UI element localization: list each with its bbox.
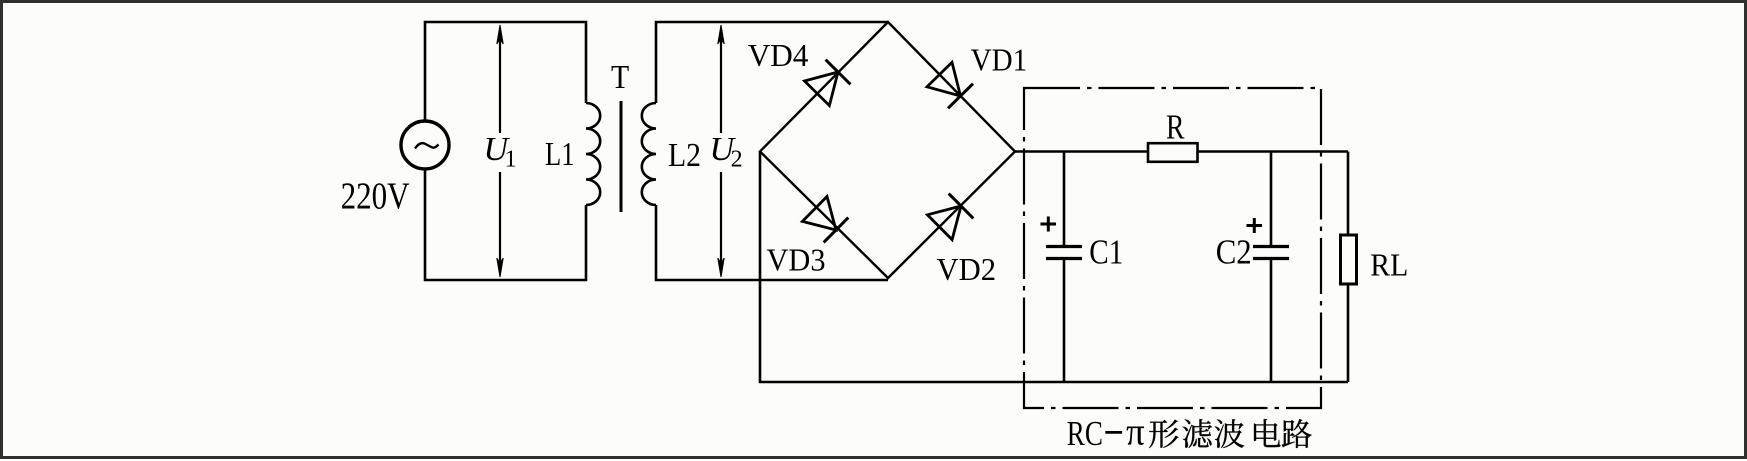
svg-text:220V: 220V bbox=[341, 176, 410, 218]
svg-text:VD3: VD3 bbox=[767, 242, 826, 278]
filter boundary dash-dot box bbox=[1024, 88, 1321, 408]
svg-text:π: π bbox=[1126, 411, 1145, 454]
svg-text:C1: C1 bbox=[1089, 233, 1123, 272]
diode VD1 bbox=[927, 62, 973, 108]
wire DC positive rail bbox=[1015, 150, 1348, 153]
wire negative return from bridge left vertex bbox=[760, 152, 1348, 383]
diode VD4 bbox=[805, 60, 851, 106]
svg-text:RL: RL bbox=[1370, 247, 1408, 283]
inductor L2 secondary winding bbox=[642, 103, 656, 205]
svg-text:R: R bbox=[1166, 108, 1185, 147]
AC source 220V bbox=[401, 121, 449, 169]
wire primary loop bbox=[425, 22, 586, 280]
polarity plus C1 bbox=[1041, 217, 1057, 232]
arrow U2 bbox=[718, 25, 724, 277]
svg-text:RC: RC bbox=[1067, 414, 1103, 453]
svg-text:L1: L1 bbox=[545, 136, 575, 173]
inductor L1 primary winding bbox=[586, 103, 600, 205]
capacitor C1 bbox=[1046, 152, 1082, 383]
transformer T core bbox=[620, 101, 623, 212]
svg-text:VD1: VD1 bbox=[971, 42, 1028, 78]
wire bridge diamond bbox=[760, 22, 1015, 278]
svg-text:VD4: VD4 bbox=[748, 37, 809, 73]
wire secondary loop bbox=[656, 22, 888, 280]
wire RL branch bbox=[1347, 152, 1350, 383]
resistor RL bbox=[1341, 235, 1357, 284]
polarity plus C2 bbox=[1247, 218, 1263, 233]
svg-text:C2: C2 bbox=[1216, 233, 1252, 272]
arrow U1 bbox=[497, 25, 503, 277]
caption RC-pi filter label bbox=[1067, 411, 1312, 454]
diode VD2 bbox=[927, 194, 973, 240]
diode VD3 bbox=[802, 197, 848, 243]
svg-text:VD2: VD2 bbox=[937, 251, 997, 287]
svg-text:L2: L2 bbox=[668, 137, 701, 174]
svg-text:T: T bbox=[611, 59, 629, 96]
resistor R bbox=[1148, 143, 1198, 162]
capacitor C2 bbox=[1253, 152, 1289, 383]
